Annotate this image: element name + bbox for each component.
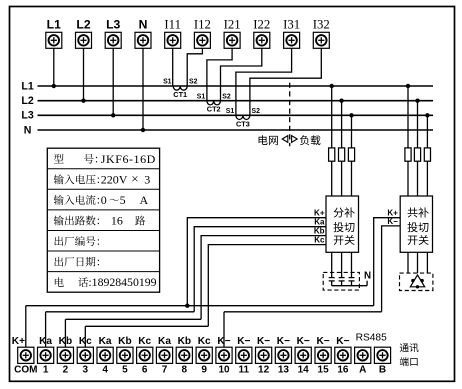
fuse FU4 (405, 84, 411, 196)
current transformer CT3 (226, 108, 260, 128)
wire stub terminal 1 (45, 312, 47, 347)
capacitor bank C1 (分补, star to N) (323, 252, 367, 290)
svg-text:Kb: Kb (314, 226, 325, 235)
svg-text:2: 2 (63, 365, 69, 376)
svg-text:L2: L2 (76, 17, 90, 31)
wire Kb control (分补) (201, 226, 326, 319)
terminal 11 (236, 336, 252, 376)
svg-text:15: 15 (318, 365, 330, 376)
terminal 7 (156, 336, 172, 376)
svg-text:S2: S2 (222, 93, 231, 100)
svg-text:14: 14 (298, 365, 310, 376)
svg-text:12: 12 (258, 365, 270, 376)
terminal B (374, 347, 390, 375)
terminal I11 (164, 18, 181, 49)
svg-text:K−: K− (336, 336, 349, 347)
svg-text:Ka: Ka (314, 218, 325, 227)
svg-text:A: A (140, 193, 149, 207)
svg-text:10: 10 (218, 365, 230, 376)
svg-text:K−: K− (297, 336, 310, 347)
wire I11 to CT1 S1 (172, 48, 174, 86)
svg-text:K−: K− (237, 336, 250, 347)
wire K+ bus (26, 305, 374, 307)
wire K- bus (224, 311, 382, 313)
wire K- control (共补) (382, 217, 401, 312)
terminal 8 (176, 336, 192, 376)
bus L3 (21, 110, 433, 122)
switch box 共补投切开关 U2 (400, 196, 432, 252)
terminal 9 (196, 336, 212, 376)
terminal 4 (97, 336, 113, 376)
svg-text:3: 3 (83, 365, 89, 376)
svg-text:B: B (379, 365, 386, 376)
terminal L1 (46, 17, 62, 48)
terminal 6 (137, 336, 153, 376)
terminal I21 (224, 18, 241, 49)
node grid/load divider (259, 83, 321, 147)
terminal 12 (256, 336, 272, 376)
bus L1 (21, 80, 433, 92)
svg-text:I12: I12 (194, 18, 211, 32)
svg-text:11: 11 (239, 365, 250, 376)
svg-text:I31: I31 (283, 18, 300, 32)
terminal 3 (77, 336, 93, 376)
terminal 1 (38, 336, 54, 376)
wire stub terminal 3 (84, 326, 86, 347)
wire Kb bus (65, 318, 201, 320)
wire I21 to CT (207, 48, 232, 100)
svg-text:K+: K+ (387, 209, 398, 218)
svg-text:8: 8 (182, 365, 188, 376)
svg-text:Kc: Kc (138, 336, 151, 347)
svg-text:0: 0 (101, 193, 107, 207)
svg-text:L1: L1 (47, 17, 61, 31)
label RS485 (356, 333, 387, 344)
svg-text:L2: L2 (21, 95, 33, 107)
svg-text:1: 1 (43, 365, 49, 376)
terminal COM (12, 336, 38, 376)
wire stub terminal 10 (223, 312, 225, 347)
svg-text:CT3: CT3 (236, 119, 250, 128)
svg-text:5: 5 (120, 193, 126, 207)
svg-text:L1: L1 (21, 80, 33, 92)
wire L2 terminal drop (81, 48, 85, 103)
svg-text:K−: K− (257, 336, 270, 347)
svg-text:CT1: CT1 (173, 90, 187, 99)
junction K+ (185, 304, 189, 308)
fuse FU5 (414, 99, 420, 197)
svg-text:16: 16 (337, 365, 349, 376)
wire Ka bus (46, 311, 195, 313)
fuse FU6 (424, 113, 430, 196)
svg-text:L3: L3 (21, 110, 33, 122)
svg-text:Kb: Kb (118, 336, 131, 347)
svg-text:JKF6-16D: JKF6-16D (101, 152, 156, 166)
svg-text:220V: 220V (101, 172, 128, 186)
fuse FU1 (329, 84, 335, 196)
terminal L3 (105, 17, 121, 48)
wire I12 to CT (187, 48, 202, 86)
current transformer CT2 (197, 93, 231, 113)
fuse FU3 (348, 113, 354, 196)
svg-text:S1: S1 (163, 79, 172, 86)
svg-text:Ka: Ka (158, 336, 171, 347)
wire K+ control (分补) (187, 209, 326, 306)
wire K+ control (共补) (374, 209, 401, 306)
capacitor bank C2 (共补, delta) (400, 252, 433, 290)
svg-text:K+: K+ (12, 336, 25, 347)
wire Kc control (分补) (208, 235, 326, 326)
wire stub terminal COM (25, 306, 27, 348)
svg-text:K−: K− (277, 336, 290, 347)
svg-text:Kc: Kc (198, 336, 211, 347)
svg-text:I21: I21 (224, 18, 241, 32)
svg-text:×: × (131, 171, 138, 186)
wire L3 terminal drop (111, 48, 115, 117)
terminal A (355, 347, 371, 375)
svg-text:S1: S1 (226, 108, 235, 115)
svg-text:Kc: Kc (314, 235, 325, 244)
svg-text:5: 5 (122, 365, 128, 376)
terminal 16 (335, 336, 351, 376)
terminal L2 (76, 17, 92, 48)
svg-text:Ka: Ka (99, 336, 112, 347)
svg-text:K−: K− (387, 217, 398, 226)
wire I32 to CT (250, 48, 321, 115)
wire stub terminal 2 (64, 319, 66, 347)
terminal N (135, 17, 151, 48)
svg-text:I32: I32 (313, 18, 330, 32)
svg-text:I11: I11 (164, 18, 181, 32)
svg-text:CT2: CT2 (207, 105, 221, 114)
svg-text:9: 9 (201, 365, 207, 376)
wire Ka control (分补) (194, 218, 326, 312)
bus L2 (21, 95, 433, 107)
svg-text:Ka: Ka (39, 336, 52, 347)
wire N terminal drop (141, 48, 145, 132)
current transformer CT1 (163, 79, 198, 99)
terminal 2 (57, 336, 73, 376)
svg-text:Kb: Kb (59, 336, 72, 347)
svg-text:6: 6 (142, 365, 148, 376)
switch box 分补投切开关 U1 (326, 196, 359, 252)
fuse FU2 (339, 99, 345, 197)
svg-text:A: A (359, 365, 366, 376)
svg-text:Kb: Kb (178, 336, 191, 347)
wire I31 to CT (236, 48, 292, 115)
bus N (24, 124, 433, 136)
terminal 13 (275, 336, 291, 376)
nameplate table (47, 148, 159, 292)
svg-text:S2: S2 (252, 108, 261, 115)
svg-text:S1: S1 (197, 93, 206, 100)
svg-text::18928450199: :18928450199 (88, 275, 156, 289)
svg-text:7: 7 (162, 365, 168, 376)
wire I22 to CT (221, 48, 262, 100)
node N (capacitor neutral) (364, 270, 371, 281)
svg-text:S2: S2 (189, 79, 198, 86)
terminal I12 (194, 18, 211, 49)
svg-text:N: N (24, 124, 32, 136)
svg-text:13: 13 (278, 365, 290, 376)
svg-text:K−: K− (217, 336, 230, 347)
terminal I22 (253, 18, 270, 49)
svg-text:COM: COM (14, 365, 37, 376)
svg-text:N: N (364, 270, 371, 281)
terminal 10 (216, 336, 232, 376)
terminal I31 (283, 18, 300, 49)
svg-text:RS485: RS485 (356, 333, 387, 344)
svg-text:3: 3 (144, 172, 150, 186)
svg-text:Kc: Kc (79, 336, 92, 347)
svg-text:K+: K+ (314, 209, 325, 218)
svg-text:4: 4 (102, 365, 108, 376)
terminal I32 (313, 18, 330, 49)
svg-text:16: 16 (111, 214, 123, 228)
svg-text:L3: L3 (106, 17, 120, 31)
terminal 5 (117, 336, 133, 376)
wire Kc bus (85, 325, 208, 327)
svg-text:N: N (139, 17, 148, 31)
wire L1 terminal drop (52, 48, 56, 88)
svg-text:I22: I22 (253, 18, 270, 32)
svg-text:K−: K− (317, 336, 330, 347)
terminal 15 (315, 336, 331, 376)
terminal 14 (295, 336, 311, 376)
label 通讯端口 (400, 343, 419, 366)
